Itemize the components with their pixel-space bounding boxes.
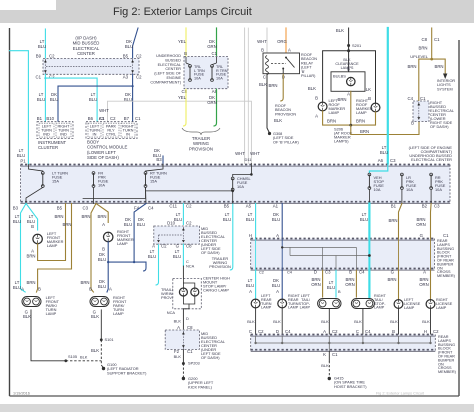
fuse CHMSL 10A — [250, 173, 253, 176]
wire WHT from BCM A3 up and right to D11 — [108, 101, 252, 163]
svg-text:C1: C1 — [135, 116, 141, 121]
svg-text:A5: A5 — [246, 204, 252, 209]
svg-text:LT: LT — [382, 145, 387, 150]
svg-text:BUMPER: BUMPER — [437, 262, 454, 266]
svg-text:A3: A3 — [123, 75, 129, 80]
svg-text:ORN: ORN — [345, 282, 355, 287]
svg-text:B3: B3 — [13, 206, 19, 211]
wire DK GRN from BEC to trailer provision hook — [216, 89, 218, 123]
svg-text:C1: C1 — [36, 75, 42, 80]
svg-text:C4: C4 — [408, 96, 414, 101]
box: rear lamps bussing block (ground side) — [251, 335, 436, 352]
arrow to interior lights system — [443, 74, 447, 80]
svg-text:C1: C1 — [434, 37, 440, 42]
svg-text:BLU: BLU — [13, 219, 21, 224]
svg-text:OF DASH): OF DASH) — [201, 355, 220, 360]
svg-text:NCA: NCA — [167, 310, 176, 315]
svg-text:ORN: ORN — [419, 282, 429, 287]
svg-text:LAMP: LAMP — [374, 306, 385, 310]
svg-text:BRN: BRN — [418, 46, 427, 51]
svg-text:ROOF: ROOF — [275, 104, 287, 108]
svg-text:B7: B7 — [124, 116, 130, 121]
fuse LT TURN 15A — [28, 165, 42, 172]
diagram right border — [458, 40, 460, 396]
bottom gray bar — [0, 404, 474, 412]
svg-text:BLU: BLU — [98, 257, 106, 262]
svg-text:LT: LT — [225, 212, 230, 217]
svg-text:B: B — [102, 247, 105, 252]
svg-text:LT: LT — [150, 249, 155, 254]
fuse TRL L TRN 10A — [189, 66, 191, 80]
svg-text:PROVISION: PROVISION — [209, 264, 231, 269]
svg-text:LT: LT — [29, 214, 34, 219]
svg-text:CTRL: CTRL — [106, 131, 117, 136]
svg-text:BRN: BRN — [419, 277, 428, 282]
svg-text:DK: DK — [209, 39, 215, 44]
svg-text:C3: C3 — [325, 270, 331, 275]
box: instrument cluster — [37, 122, 73, 139]
svg-text:C2: C2 — [332, 329, 338, 334]
svg-text:(I/P DASH): (I/P DASH) — [75, 36, 97, 41]
fuse VEH STOP 10A — [369, 165, 387, 174]
svg-text:TURN: TURN — [288, 302, 299, 306]
svg-text:COMPARTMENT): COMPARTMENT) — [150, 80, 181, 84]
svg-text:BLK: BLK — [23, 314, 31, 319]
svg-text:LT: LT — [15, 280, 20, 285]
svg-text:WHT: WHT — [250, 151, 260, 156]
svg-text:DK: DK — [273, 278, 279, 283]
svg-text:BRN: BRN — [26, 254, 35, 259]
box: body control module — [86, 122, 137, 139]
svg-text:BLU: BLU — [174, 217, 182, 222]
wire BRN from relay to roof beacon provision — [282, 74, 284, 98]
wire BLK from top with splice S201 — [348, 28, 350, 72]
svg-text:BRN: BRN — [81, 214, 90, 219]
svg-text:C2: C2 — [186, 204, 192, 209]
svg-text:MEMBER): MEMBER) — [437, 274, 456, 278]
svg-text:B: B — [347, 67, 350, 72]
svg-text:LICENSE: LICENSE — [404, 302, 421, 306]
svg-text:B: B — [368, 96, 371, 101]
svg-text:OF REAR: OF REAR — [437, 259, 454, 263]
svg-text:BRN: BRN — [387, 277, 396, 282]
wire YEL from top into underhood BEC — [185, 28, 187, 57]
svg-text:B: B — [89, 287, 92, 292]
wire DK BLU marker B to park/turn A — [107, 242, 108, 292]
long wire LT BLU from top to fuse box A6 — [387, 28, 389, 165]
box U1: MID BUSSED ELECTRICAL CENTER (I/P dash) — [43, 59, 139, 75]
svg-text:DK: DK — [138, 217, 144, 222]
svg-text:BLU: BLU — [124, 222, 132, 227]
svg-text:IN: IN — [126, 131, 130, 136]
svg-text:CROSS: CROSS — [438, 366, 452, 370]
svg-text:CLUSTER: CLUSTER — [38, 145, 58, 150]
svg-text:HOIST BRACKET): HOIST BRACKET) — [334, 384, 367, 389]
svg-text:ROOF: ROOF — [301, 53, 313, 57]
svg-text:B: B — [392, 329, 395, 334]
svg-text:BLK: BLK — [390, 319, 398, 324]
box: rear lamps bussing block — [251, 239, 435, 271]
svg-text:C1: C1 — [332, 352, 338, 357]
svg-text:UPLEVEL: UPLEVEL — [410, 54, 429, 59]
svg-text:BODY: BODY — [87, 140, 99, 145]
svg-text:C8: C8 — [186, 244, 192, 249]
svg-text:10A: 10A — [435, 187, 442, 192]
svg-text:BLK: BLK — [80, 355, 88, 360]
svg-text:MEMBER): MEMBER) — [438, 370, 457, 374]
svg-text:A: A — [21, 287, 24, 292]
svg-text:C: C — [356, 329, 359, 334]
svg-text:BLU: BLU — [272, 283, 280, 288]
svg-text:LAMP: LAMP — [113, 311, 124, 316]
svg-text:TRAILER: TRAILER — [192, 136, 210, 141]
svg-text:BUMPER: BUMPER — [438, 358, 455, 362]
svg-text:DK: DK — [99, 279, 105, 284]
stub wire DK BLU — [162, 156, 164, 165]
svg-text:B5: B5 — [224, 204, 230, 209]
svg-text:C2: C2 — [110, 116, 116, 121]
svg-text:BLK: BLK — [308, 86, 316, 91]
svg-text:C1: C1 — [212, 51, 218, 56]
svg-text:LT: LT — [91, 92, 96, 97]
svg-text:WIRING: WIRING — [193, 141, 210, 146]
wire YEL from BEC to trailer provision hook — [185, 89, 187, 123]
svg-text:C1: C1 — [420, 96, 426, 101]
svg-text:ON: ON — [437, 266, 443, 270]
svg-text:BLU: BLU — [38, 44, 46, 49]
internal ground bus — [256, 342, 431, 344]
diagram bottom border — [10, 395, 460, 397]
svg-text:A: A — [288, 48, 291, 53]
svg-text:BLK: BLK — [174, 319, 182, 324]
svg-text:RIGHT: RIGHT — [374, 294, 386, 298]
svg-text:GRN: GRN — [207, 44, 217, 49]
svg-text:LAMP: LAMP — [356, 110, 367, 115]
svg-text:BLK: BLK — [91, 348, 99, 353]
svg-text:LT: LT — [40, 39, 45, 44]
svg-text:STOP-: STOP- — [298, 302, 310, 306]
svg-text:BLOCK: BLOCK — [438, 347, 451, 351]
svg-text:BRN: BRN — [54, 214, 63, 219]
svg-text:BRN: BRN — [97, 214, 106, 219]
svg-text:BLU: BLU — [173, 254, 181, 259]
svg-text:B1: B1 — [391, 204, 397, 209]
svg-text:BLK: BLK — [343, 58, 351, 62]
wire LT BLU from left border to fuse box pin P1 — [10, 51, 29, 165]
svg-text:BLU: BLU — [89, 97, 97, 102]
svg-text:IND: IND — [60, 131, 67, 136]
svg-text:C2: C2 — [161, 244, 167, 249]
svg-text:BLU: BLU — [272, 217, 280, 222]
lamp: left license — [394, 300, 403, 309]
svg-text:C8: C8 — [422, 37, 428, 42]
diagram left border — [9, 28, 11, 396]
box: roof clearance lamps bulbs — [331, 72, 365, 92]
svg-text:RIGHT: RIGHT — [288, 294, 300, 298]
svg-text:A: A — [423, 270, 426, 275]
svg-text:(FRONT: (FRONT — [438, 351, 453, 355]
svg-text:BRN: BRN — [311, 277, 320, 282]
svg-text:BRN: BRN — [388, 218, 397, 223]
svg-text:BLU: BLU — [50, 97, 58, 102]
svg-text:1/19/2016: 1/19/2016 — [13, 392, 30, 396]
wire BRN split to right BEC and interior lights — [419, 59, 445, 101]
box: IP bussed electrical center (fuse box) — [21, 165, 450, 204]
svg-text:OF DASH): OF DASH) — [201, 250, 220, 255]
svg-text:BLU: BLU — [137, 222, 145, 227]
svg-text:BUSSING: BUSSING — [437, 247, 454, 251]
internal bus — [83, 187, 146, 198]
svg-text:BLK: BLK — [274, 118, 282, 123]
svg-text:ON: ON — [438, 362, 444, 366]
svg-text:BUSSING: BUSSING — [438, 343, 455, 347]
svg-text:UNDERHOOD: UNDERHOOD — [156, 54, 181, 58]
wire DK BLU from U1-A3 to BCM B7, branch to cluster B10 — [132, 74, 134, 121]
svg-text:10A: 10A — [374, 187, 381, 192]
svg-text:LT: LT — [15, 214, 20, 219]
svg-text:LT: LT — [39, 92, 44, 97]
svg-text:D10: D10 — [167, 221, 175, 226]
ground G308 — [268, 132, 271, 135]
wire LT BLU from U1-C1 to cluster B1, branch to BCM B6 — [44, 74, 46, 121]
svg-text:STOP-: STOP- — [374, 302, 386, 306]
svg-text:H: H — [424, 329, 427, 334]
svg-text:BLK: BLK — [91, 314, 99, 319]
wire LT BLU top stub into U1 — [44, 29, 46, 59]
lamp: right roof marker — [371, 103, 380, 112]
svg-text:F2: F2 — [174, 349, 180, 354]
svg-text:SUPPORT BRACKET): SUPPORT BRACKET) — [107, 370, 147, 375]
svg-text:BLK: BLK — [273, 319, 281, 324]
svg-text:LAMP: LAMP — [329, 110, 340, 115]
fuse RR PRK 10A — [430, 175, 432, 189]
box: underhood bussed electrical center — [184, 57, 228, 89]
svg-text:C2: C2 — [136, 54, 142, 59]
wire BRN marker A loop to fuse box — [38, 204, 66, 261]
svg-text:K: K — [323, 352, 326, 357]
svg-text:S101: S101 — [105, 337, 114, 342]
svg-text:BLU: BLU — [148, 254, 156, 259]
svg-text:LT: LT — [248, 212, 253, 217]
svg-text:Fig 2: Exterior Lamps Circuit: Fig 2: Exterior Lamps Circuit — [376, 392, 425, 396]
svg-text:10A: 10A — [216, 76, 223, 80]
svg-text:S105: S105 — [68, 354, 77, 359]
svg-text:B: B — [349, 270, 352, 275]
svg-text:C8: C8 — [187, 325, 193, 330]
svg-text:BLU: BLU — [360, 217, 368, 222]
svg-text:BLU: BLU — [246, 217, 254, 222]
svg-text:10A: 10A — [406, 187, 413, 192]
svg-text:LAMP: LAMP — [404, 306, 415, 310]
relay K1: roof beacon relay — [263, 53, 300, 74]
svg-text:C2: C2 — [259, 270, 264, 275]
svg-text:DK: DK — [99, 252, 105, 257]
svg-text:TAIL/: TAIL/ — [374, 298, 384, 302]
svg-text:10A: 10A — [237, 184, 244, 189]
svg-text:B1: B1 — [37, 116, 43, 121]
svg-text:A: A — [276, 233, 279, 238]
wire BLK grounds from rear lamps to lower bussing block — [255, 308, 257, 335]
svg-text:C11: C11 — [169, 204, 177, 209]
svg-text:B: B — [261, 48, 264, 53]
svg-text:BLU: BLU — [13, 285, 21, 290]
svg-text:PROVISION: PROVISION — [275, 112, 296, 116]
svg-text:ENGINE: ENGINE — [166, 76, 181, 80]
svg-text:ELECTRICAL: ELECTRICAL — [73, 46, 100, 51]
svg-text:H: H — [249, 233, 252, 238]
svg-text:(LEFT SIDE: (LEFT SIDE — [273, 136, 294, 140]
svg-text:ELECTRICAL CENTER: ELECTRICAL CENTER — [411, 157, 452, 162]
svg-text:BLK: BLK — [174, 354, 182, 359]
svg-text:DK: DK — [126, 39, 132, 44]
svg-text:BLK: BLK — [247, 319, 255, 324]
wire BRN network S206 — [350, 91, 352, 125]
svg-text:BLK: BLK — [321, 363, 329, 368]
svg-text:LAMP: LAMP — [46, 311, 57, 316]
svg-text:BRN: BRN — [80, 280, 89, 285]
svg-text:PILLAR): PILLAR) — [301, 74, 316, 78]
wire BRN from top C8|C1 to splice with UPLEVEL — [431, 28, 433, 59]
box: center high mount stop lamp / cargo lamp — [173, 278, 202, 308]
svg-text:LAMP: LAMP — [288, 306, 299, 310]
wire WHT from top to relay coil — [266, 28, 268, 53]
svg-text:L TRN: L TRN — [194, 69, 205, 73]
svg-text:BLK: BLK — [336, 28, 344, 33]
wire LT BLU (thick) fuse box to rear block — [368, 204, 370, 239]
svg-text:A: A — [276, 289, 279, 294]
svg-text:ORG: ORG — [277, 39, 287, 44]
svg-text:RIGHT: RIGHT — [436, 298, 448, 302]
svg-text:LT: LT — [329, 280, 334, 285]
lamp: right tail/stop — [351, 299, 374, 309]
svg-text:OF 'B' PILLAR): OF 'B' PILLAR) — [273, 140, 299, 144]
svg-text:C: C — [249, 329, 252, 334]
svg-text:LEFT: LEFT — [261, 294, 271, 298]
svg-text:DK: DK — [273, 212, 279, 217]
svg-text:A1: A1 — [273, 204, 279, 209]
svg-text:(LOWER LEFT: (LOWER LEFT — [87, 150, 116, 155]
svg-text:BLU: BLU — [37, 97, 45, 102]
svg-text:C4: C4 — [365, 329, 371, 334]
svg-text:REAR: REAR — [437, 239, 448, 243]
wire WHT extra from top — [247, 28, 249, 164]
svg-text:(FRONT: (FRONT — [437, 255, 452, 259]
svg-text:LT: LT — [175, 249, 180, 254]
svg-text:LT: LT — [362, 212, 367, 217]
fuse TRL R TRN 10A — [211, 66, 213, 80]
svg-text:15A: 15A — [150, 179, 157, 184]
svg-text:FUSE: FUSE — [216, 73, 227, 77]
svg-text:BRN: BRN — [327, 119, 336, 124]
svg-text:A6: A6 — [378, 158, 384, 163]
svg-text:YEL: YEL — [178, 39, 187, 44]
svg-text:BLU: BLU — [98, 284, 106, 289]
svg-text:B10: B10 — [46, 116, 54, 121]
svg-text:ELECTRICAL: ELECTRICAL — [158, 63, 181, 67]
svg-text:C4: C4 — [148, 206, 154, 211]
svg-text:SP203: SP203 — [188, 361, 200, 366]
svg-text:(LEFT SIDE OF: (LEFT SIDE OF — [154, 72, 181, 76]
svg-text:TRL: TRL — [194, 65, 201, 69]
box: mid bussed electrical center #3 — [165, 330, 199, 349]
svg-text:ORN: ORN — [311, 282, 321, 287]
svg-text:BLU: BLU — [327, 285, 335, 290]
svg-text:CONTROL MODULE: CONTROL MODULE — [87, 145, 128, 150]
svg-text:C1: C1 — [187, 349, 193, 354]
svg-text:BLU: BLU — [223, 217, 231, 222]
svg-text:WHT: WHT — [235, 151, 245, 156]
wire DK BLU top stub into U1 — [133, 28, 138, 59]
svg-text:TAIL/: TAIL/ — [301, 298, 311, 302]
svg-text:D: D — [276, 329, 279, 334]
svg-text:C4: C4 — [285, 329, 291, 334]
svg-text:REAR: REAR — [261, 298, 272, 302]
svg-text:ORN: ORN — [416, 222, 426, 227]
svg-text:C4: C4 — [359, 270, 365, 275]
svg-text:SYSTEM: SYSTEM — [437, 87, 453, 91]
svg-text:BLK: BLK — [321, 319, 329, 324]
svg-text:B: B — [31, 224, 34, 229]
svg-text:LAMP: LAMP — [47, 243, 58, 248]
svg-text:BRN: BRN — [434, 64, 443, 69]
svg-text:LT: LT — [176, 212, 181, 217]
svg-text:A: A — [109, 287, 112, 292]
svg-text:C2: C2 — [136, 75, 142, 80]
svg-text:NCA: NCA — [186, 264, 195, 269]
svg-text:G308: G308 — [273, 132, 282, 136]
svg-text:BEACON: BEACON — [301, 57, 317, 61]
svg-text:BLU: BLU — [246, 283, 254, 288]
svg-text:LEFT: LEFT — [404, 298, 414, 302]
wire BLK from relay to ground G308 — [267, 74, 270, 133]
svg-text:BRN: BRN — [416, 217, 425, 222]
svg-text:LAMP: LAMP — [117, 241, 128, 246]
svg-text:'B': 'B' — [301, 70, 305, 74]
svg-text:FUSE: FUSE — [194, 73, 205, 77]
svg-text:SIDE OF DASH): SIDE OF DASH) — [87, 155, 119, 160]
svg-text:A: A — [323, 329, 326, 334]
svg-text:A: A — [347, 92, 350, 97]
svg-text:LAMP: LAMP — [300, 306, 311, 310]
svg-text:LAMP: LAMP — [436, 306, 447, 310]
svg-text:OF REAR: OF REAR — [438, 355, 455, 359]
svg-text:A: A — [31, 249, 34, 254]
svg-text:D11: D11 — [245, 157, 252, 162]
svg-text:DK: DK — [125, 92, 131, 97]
svg-text:CLEARANCE: CLEARANCE — [335, 62, 359, 66]
svg-text:C1: C1 — [443, 233, 449, 238]
svg-text:B2: B2 — [422, 204, 428, 209]
svg-text:MID BUSSED: MID BUSSED — [73, 41, 100, 46]
svg-text:LAMP: LAMP — [261, 306, 272, 310]
ground G100 — [102, 367, 105, 370]
svg-text:YEL: YEL — [178, 95, 187, 100]
svg-text:C3: C3 — [434, 204, 440, 209]
svg-text:A: A — [249, 289, 252, 294]
svg-text:C3: C3 — [83, 206, 89, 211]
svg-text:B: B — [184, 51, 187, 56]
svg-text:BRN: BRN — [345, 277, 354, 282]
svg-text:LT: LT — [248, 278, 253, 283]
svg-text:BRN: BRN — [407, 64, 416, 69]
lamp: right license — [426, 300, 435, 309]
svg-text:P1: P1 — [20, 159, 26, 164]
svg-text:REAR: REAR — [438, 335, 449, 339]
svg-text:C3: C3 — [390, 158, 396, 163]
svg-text:B: B — [411, 121, 414, 126]
svg-text:10A: 10A — [98, 183, 105, 188]
U1 internal pins — [44, 59, 46, 74]
